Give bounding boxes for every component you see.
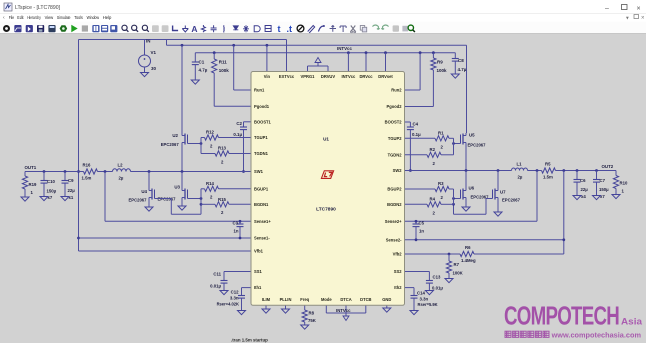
resistor R13	[215, 151, 229, 156]
junction Vin pin drop	[266, 44, 269, 47]
toolbar icon 38 find (disabled)	[393, 25, 399, 31]
svg-text:L2: L2	[118, 162, 124, 167]
junction DRVcc pin drop	[365, 51, 368, 54]
junction DRVset pin drop	[384, 51, 387, 54]
toolbar icon 17 wire	[173, 26, 179, 31]
wire U2 gate lead	[188, 143, 202, 145]
svg-text:C14: C14	[417, 291, 425, 296]
svg-text:U4: U4	[141, 189, 147, 194]
ground under C11	[220, 291, 228, 295]
netflag INTVcc down	[345, 313, 347, 316]
capacitor C6	[576, 171, 578, 180]
toolbar icon 26 misc	[265, 26, 271, 32]
junction SW1 sense tap	[104, 170, 107, 173]
junction SW2 at C7	[595, 169, 598, 172]
toolbar icon 30 edit	[308, 26, 315, 34]
junction bottom gate bus upper	[200, 197, 203, 200]
svg-text:TGUP1: TGUP1	[254, 135, 268, 140]
wire Vfb2	[405, 253, 461, 255]
junction U5 gate node	[452, 142, 455, 145]
resistor R7	[448, 254, 450, 261]
svg-text:C4: C4	[413, 121, 419, 126]
wire SS2	[405, 271, 430, 273]
svg-text:Tools: Tools	[74, 15, 83, 20]
svg-text:BOOST2: BOOST2	[385, 120, 403, 125]
svg-text:OUT1: OUT1	[25, 165, 37, 170]
wire BGDN2	[405, 203, 428, 205]
svg-text:V1: V1	[151, 50, 157, 55]
svg-text:ILIM: ILIM	[262, 297, 271, 302]
capacitor C7	[596, 171, 598, 180]
svg-text:×: ×	[637, 6, 641, 13]
svg-text:Sense2-: Sense2-	[386, 237, 402, 242]
svg-text:C11: C11	[213, 272, 221, 277]
svg-text:C7: C7	[600, 178, 606, 183]
svg-text:.t: .t	[286, 24, 292, 34]
ground under U4	[145, 207, 153, 211]
svg-text:SS2: SS2	[394, 269, 402, 274]
svg-text:L1: L1	[517, 161, 523, 166]
svg-text:GND: GND	[382, 297, 391, 302]
svg-text:SW2: SW2	[393, 168, 403, 173]
svg-text:0.1µ: 0.1µ	[412, 132, 421, 137]
svg-text:BGUP1: BGUP1	[254, 186, 269, 191]
resistor R8	[304, 305, 306, 310]
ground under GND pin	[386, 305, 388, 308]
wire TGUP2	[405, 137, 436, 139]
logo tagline chinese	[505, 331, 511, 337]
junction SW1 at C10	[43, 170, 46, 173]
svg-text:R2: R2	[430, 147, 436, 152]
resistor R16 shunt	[84, 169, 98, 174]
svg-text:4.7µ: 4.7µ	[458, 67, 467, 72]
wire OUT2 feedback vertical	[563, 171, 565, 255]
capacitor C11	[223, 272, 225, 281]
resistor R12	[205, 135, 219, 140]
svg-text:C2: C2	[236, 121, 242, 126]
toolbar icon 34 scissors	[351, 26, 356, 32]
svg-text:0.01µ: 0.01µ	[432, 286, 443, 291]
junction C3 bottom	[239, 237, 242, 240]
resistor R5 shunt	[542, 168, 556, 173]
svg-text:EPC2067: EPC2067	[502, 198, 521, 203]
toolbar icon 11 cascade	[110, 25, 117, 32]
resistor R19	[24, 172, 26, 177]
wire U5 source to SW2	[465, 145, 467, 171]
svg-text:View: View	[45, 15, 54, 20]
wire Vin rail right corner	[466, 45, 468, 133]
wire TGUP1	[219, 137, 252, 139]
junction R9 top	[432, 51, 435, 54]
toolbar icon 14 zoom out	[142, 25, 147, 30]
svg-text:22µ: 22µ	[68, 188, 76, 193]
junction INTVcc pin drop	[347, 51, 350, 54]
svg-text:SS1: SS1	[254, 269, 262, 274]
ground under V1	[141, 73, 149, 77]
wire SW1 rail	[25, 171, 84, 173]
svg-text:30: 30	[151, 66, 157, 71]
toolbar icon 4 save	[37, 25, 44, 32]
ground under U7	[494, 212, 502, 216]
inductor L1	[512, 168, 528, 170]
svg-text:1.4Meg: 1.4Meg	[461, 258, 476, 263]
svg-text:Window: Window	[87, 15, 100, 20]
junction SW2 fb tap	[562, 169, 565, 172]
capacitor C13	[428, 272, 430, 281]
svg-text:x1: x1	[69, 195, 74, 200]
svg-text:BGDN1: BGDN1	[254, 202, 269, 207]
junction Run1 drop	[232, 44, 235, 47]
toolbar icon 8 halt	[82, 25, 88, 31]
toolbar icon 32 move	[330, 25, 336, 32]
resistor R9	[432, 53, 434, 58]
wire Run1	[233, 45, 235, 90]
svg-text:SW1: SW1	[254, 169, 264, 174]
toolbar icon 21 capacitor	[211, 25, 217, 32]
svg-text:Ith2: Ith2	[394, 285, 402, 290]
wire Sense2-	[405, 239, 564, 241]
svg-text:R8: R8	[309, 311, 315, 316]
svg-text:Freq: Freq	[300, 297, 309, 302]
capacitor C9	[64, 172, 66, 181]
svg-text:R10: R10	[620, 181, 628, 186]
bottom white strip	[0, 343, 646, 347]
toolbar icon 36 paste	[372, 25, 379, 30]
wire BGDN1	[201, 203, 215, 205]
svg-text:www.compotechasia.com: www.compotechasia.com	[551, 331, 642, 340]
svg-text:100k: 100k	[219, 68, 230, 73]
svg-text:Pgood1: Pgood1	[254, 104, 270, 109]
svg-text:R4: R4	[430, 196, 436, 201]
junction left vertical at Sense1-	[77, 237, 80, 240]
netflag INTVcc up arrow	[317, 63, 319, 67]
svg-text:BGDN2: BGDN2	[387, 202, 402, 207]
wire bottom gate bus	[200, 189, 202, 205]
ground under C14	[410, 311, 418, 315]
inductor L2	[113, 169, 131, 172]
capacitor C2	[243, 122, 245, 127]
ground under R7	[445, 279, 453, 283]
svg-text:Rser=5.9K: Rser=5.9K	[418, 302, 438, 307]
toolbar icon 25 gate	[254, 26, 260, 32]
wire INTVcc rail	[195, 52, 455, 54]
svg-text:INTVcc: INTVcc	[336, 308, 351, 313]
junction Vfb2 divider	[448, 253, 451, 256]
toolbar icon 40 zoom find	[408, 25, 413, 30]
ground under U3	[178, 206, 186, 210]
transistor U3	[181, 172, 183, 189]
svg-text:LTspice - [LTC7890]: LTspice - [LTC7890]	[15, 5, 61, 11]
wire INTVcc pin	[347, 53, 349, 72]
junction SW2 sense tap	[536, 169, 539, 172]
svg-text:x7: x7	[600, 194, 605, 199]
toolbar icon 12 zoom in	[122, 25, 127, 30]
svg-text:Mode: Mode	[321, 297, 332, 302]
svg-text:1.5m: 1.5m	[82, 176, 92, 181]
svg-text:C6: C6	[580, 178, 586, 183]
junction SW1 at U4 drain	[148, 170, 151, 173]
svg-text:x7: x7	[48, 195, 53, 200]
capacitor C3	[239, 221, 241, 224]
toolbar icon 31 probe	[318, 26, 324, 32]
svg-text:3.3n: 3.3n	[420, 296, 429, 301]
svg-text:Pgood2: Pgood2	[386, 104, 402, 109]
svg-text:R6: R6	[465, 245, 471, 250]
svg-text:Run2: Run2	[391, 88, 402, 93]
junction U2 gate node	[200, 142, 203, 145]
wire Vfb1	[79, 250, 252, 252]
svg-text:BOOST1: BOOST1	[254, 119, 272, 124]
ground under R10	[612, 195, 620, 199]
resistor R10	[615, 171, 617, 176]
ground under R8	[301, 325, 309, 329]
svg-text:22µ: 22µ	[581, 187, 589, 192]
toolbar icon 5 print	[48, 25, 55, 32]
ground under C9	[61, 197, 69, 201]
svg-text:EPC2067: EPC2067	[161, 142, 180, 147]
svg-text:U6: U6	[469, 186, 475, 191]
svg-text:R1: R1	[438, 130, 444, 135]
svg-text:2µ: 2µ	[518, 175, 523, 180]
ground under ILIM	[265, 305, 267, 309]
wire Ith2	[405, 287, 415, 289]
wire long left vertical from IN rail to Vfb1	[78, 40, 80, 252]
svg-text:INTVcc: INTVcc	[337, 46, 352, 51]
capacitor C12	[241, 288, 243, 296]
junction Run2 drop	[419, 51, 422, 54]
junction C4 at SW2	[409, 169, 412, 172]
toolbar icon 7 run	[71, 25, 77, 32]
toolbar icon 39 mark	[402, 26, 408, 32]
svg-text:U1: U1	[323, 137, 329, 142]
wire DRVset pin	[385, 53, 387, 72]
svg-text:IN: IN	[146, 39, 150, 44]
ground under C1	[191, 80, 199, 84]
svg-text:R11: R11	[219, 60, 228, 65]
toolbar icon 6 control panel	[60, 25, 68, 32]
junction R11 top	[213, 51, 216, 54]
wire TGDN1	[229, 153, 251, 155]
svg-text:0.01µ: 0.01µ	[210, 284, 221, 289]
svg-text:COMPOTECH: COMPOTECH	[504, 303, 619, 331]
toolbar icon 2 open	[14, 25, 21, 32]
toolbar icon 10 tile h	[101, 25, 108, 32]
wire U6 gate lead	[454, 198, 461, 200]
svg-text:U2: U2	[172, 133, 178, 138]
svg-text:R12: R12	[206, 130, 214, 135]
svg-text:TGDN2: TGDN2	[388, 152, 403, 157]
ground under C8	[451, 74, 459, 78]
svg-text:VPRG1: VPRG1	[301, 74, 316, 79]
svg-text:U5: U5	[469, 133, 475, 138]
wire SW2 rail	[405, 170, 512, 172]
svg-text:150µ: 150µ	[599, 187, 609, 192]
toolbar icon 35 copy	[360, 26, 364, 31]
junction C3 top	[239, 220, 242, 223]
svg-text:.tran 1.5m startup: .tran 1.5m startup	[231, 338, 268, 343]
wire U2 source to SW1	[181, 145, 183, 172]
svg-text:LTC7890: LTC7890	[316, 206, 336, 212]
svg-text:Sense1-: Sense1-	[254, 236, 270, 241]
svg-text:Ith1: Ith1	[254, 285, 262, 290]
svg-text:R15: R15	[218, 197, 226, 202]
wire BGUP2	[405, 188, 436, 190]
svg-text:EXTVcc: EXTVcc	[279, 74, 295, 79]
junction U2 drain drop	[181, 44, 184, 47]
toolbar icon 3 import	[26, 25, 33, 32]
ground under C6	[573, 196, 581, 200]
wire Vin pin	[266, 45, 268, 71]
transistor U4	[148, 172, 150, 189]
wire Sense1+ tap	[104, 172, 106, 222]
resistor R11	[213, 53, 215, 59]
resistor R6	[460, 251, 474, 256]
svg-text:R5: R5	[545, 161, 551, 166]
svg-text:Asia: Asia	[621, 317, 643, 328]
svg-text:File: File	[9, 15, 15, 20]
wire Ith1	[242, 287, 252, 289]
svg-text:DTCA: DTCA	[340, 297, 351, 302]
resistor R2	[427, 152, 441, 157]
svg-text:TGUP2: TGUP2	[388, 136, 402, 141]
capacitor C5	[415, 221, 417, 224]
junction C2 at SW1	[242, 170, 245, 173]
svg-text:A: A	[191, 24, 197, 34]
svg-text:Vfb2: Vfb2	[393, 252, 403, 257]
voltage source V1	[144, 40, 146, 56]
junction fb at Sense2-	[562, 238, 565, 241]
wire gate bus	[200, 138, 202, 154]
toolbar icon 37 undo	[381, 25, 388, 30]
resistor R4	[427, 202, 441, 207]
wire BOOST1	[244, 121, 252, 123]
svg-text:C12: C12	[231, 290, 239, 295]
toolbar icon 1 gear	[3, 25, 10, 32]
wire right bottom gate bus	[453, 189, 455, 204]
svg-text:DRVcc: DRVcc	[359, 74, 373, 79]
svg-text:×: ×	[641, 16, 645, 22]
wire Sense1-	[79, 237, 252, 239]
junction C5 top	[415, 220, 418, 223]
junction SW2 at C6	[576, 169, 579, 172]
svg-text:EPC2067: EPC2067	[129, 198, 148, 203]
svg-text:▾: ▾	[626, 16, 629, 22]
ground under R19	[21, 197, 29, 201]
toolbar icon 22 inductor	[223, 25, 225, 32]
svg-text:2µ: 2µ	[119, 176, 124, 181]
svg-text:Rser=4.02K: Rser=4.02K	[217, 302, 239, 307]
svg-text:OUT2: OUT2	[602, 164, 614, 169]
wire U7 gate link	[486, 198, 493, 200]
wire BGUP1	[201, 188, 205, 190]
wire mid rail (Vin supply)	[167, 44, 467, 46]
wire Pgood2	[405, 106, 434, 108]
wire TGDN2	[405, 154, 428, 156]
svg-text:DRVUV: DRVUV	[321, 74, 336, 79]
svg-text:C9: C9	[68, 178, 74, 183]
ground under U6	[462, 207, 470, 211]
junction bottom gate bus lower	[200, 203, 203, 206]
svg-text:INTVcc: INTVcc	[341, 74, 356, 79]
toolbar icon 9 tile	[92, 25, 99, 32]
junction left vertical at SW1 rail	[77, 170, 80, 173]
svg-text:75K: 75K	[308, 318, 317, 323]
toolbar icon 24 component	[243, 25, 249, 32]
ground under C12	[238, 311, 246, 315]
svg-text:R7: R7	[454, 262, 460, 267]
LT logo	[321, 171, 333, 179]
resistor R1	[435, 136, 449, 141]
toolbar icon 18 ground	[182, 26, 188, 33]
capacitor C8	[454, 53, 456, 59]
toolbar icon 33 drag	[340, 26, 346, 32]
resistor R14	[205, 186, 219, 191]
svg-text:3.3n: 3.3n	[230, 296, 239, 301]
svg-text:R14: R14	[206, 181, 214, 186]
svg-text:t: t	[278, 24, 281, 34]
junction C5 bottom	[415, 238, 418, 241]
wire SS1	[224, 271, 251, 273]
wire VIN top rail (net IN)	[79, 39, 287, 41]
svg-text:R16: R16	[83, 162, 91, 167]
junction right gate bus lower	[452, 203, 455, 206]
resistor R15	[215, 202, 229, 207]
svg-text:C5: C5	[419, 221, 425, 226]
svg-text:Edit: Edit	[17, 15, 24, 20]
wire Sense2+	[405, 220, 538, 222]
wire Run2	[419, 53, 421, 90]
ground under C10	[40, 197, 48, 201]
svg-text:DTCB: DTCB	[360, 297, 371, 302]
svg-text:R19: R19	[29, 182, 37, 187]
junction SW2 at U7 drain	[497, 169, 500, 172]
svg-text:R3: R3	[438, 181, 444, 186]
svg-text:U3: U3	[174, 185, 180, 190]
svg-text:Sense2+: Sense2+	[385, 219, 402, 224]
svg-text:C1: C1	[199, 60, 205, 65]
wire U2 drain from Vin rail	[181, 45, 183, 133]
wire U5 gate lead	[454, 143, 461, 145]
toolbar icon 13 zoom back	[132, 25, 137, 30]
transistor U6	[465, 171, 467, 189]
wire VPRG1-DRVUV bracket	[307, 66, 309, 72]
svg-text:1n: 1n	[419, 229, 424, 234]
svg-text:Sense1+: Sense1+	[254, 219, 271, 224]
junction right gate bus upper	[452, 197, 455, 200]
svg-text:–: –	[605, 5, 609, 12]
transistor U5	[465, 133, 467, 136]
toolbar icon 20 resistor	[201, 25, 205, 32]
transistor U7	[497, 171, 499, 189]
svg-text:C8: C8	[458, 58, 464, 63]
resistor R3	[435, 186, 449, 191]
svg-text:PLLIN: PLLIN	[280, 297, 292, 302]
svg-text:Vfb1: Vfb1	[254, 249, 264, 254]
svg-text:x4: x4	[581, 194, 586, 199]
ground under PLLIN	[285, 305, 287, 309]
toolbar icon 29 halt sign	[297, 25, 304, 32]
junction SW2 at U5 source	[465, 169, 468, 172]
transistor U2	[181, 133, 183, 136]
svg-text:Run1: Run1	[254, 88, 265, 93]
svg-text:BGUP2: BGUP2	[387, 187, 402, 192]
wire Mode-DTCA-DTCB bracket	[325, 305, 327, 313]
svg-text:C13: C13	[433, 275, 441, 280]
wire U3 gate lead	[188, 198, 202, 200]
svg-text:150µ: 150µ	[47, 188, 57, 193]
svg-text:TGDN1: TGDN1	[254, 151, 269, 156]
svg-text:C3: C3	[233, 221, 239, 226]
